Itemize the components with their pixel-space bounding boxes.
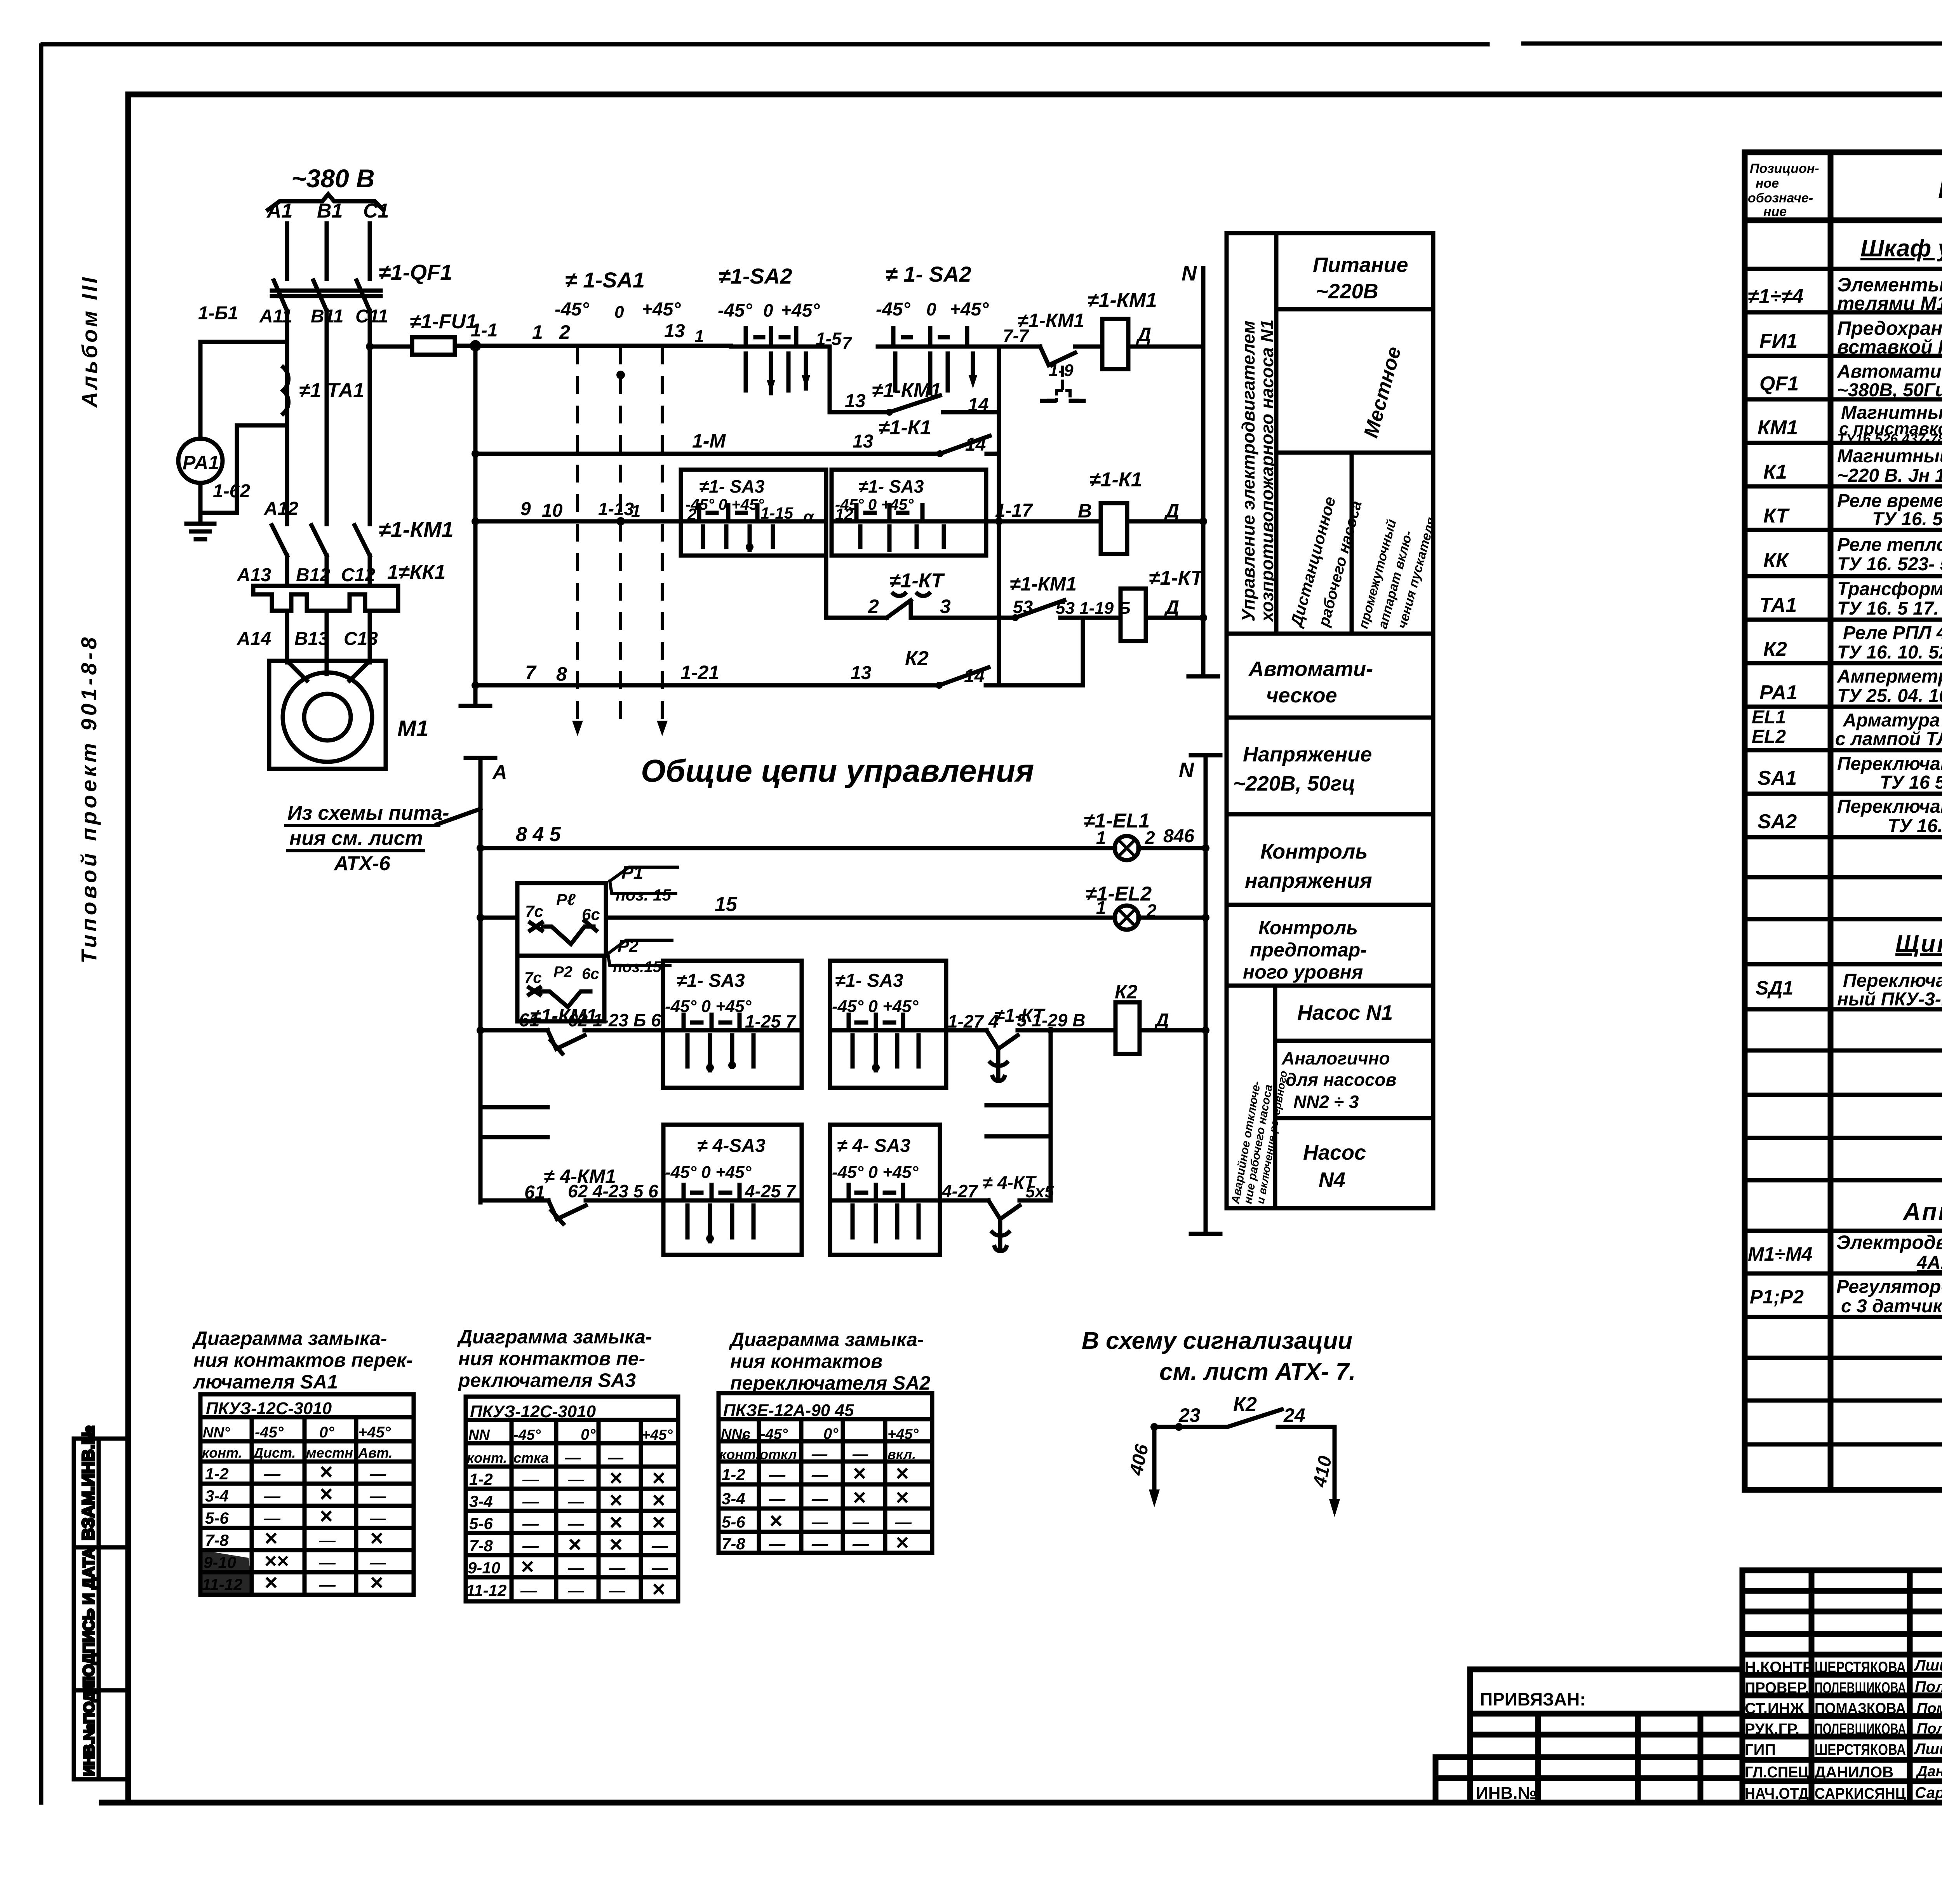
svg-text:—: — [522,1470,539,1488]
svg-text:1-25 7: 1-25 7 [745,1011,797,1031]
contactor KM1 aux contact row4 [1015,600,1064,618]
svg-text:Д: Д [1164,500,1179,522]
svg-text:≠1 ТА1: ≠1 ТА1 [299,379,364,402]
node row5 [472,681,479,689]
lamp EL1 [1115,836,1139,860]
vertical link 2572 [997,412,1001,685]
svg-text:N: N [1179,758,1194,782]
svg-text:QF1: QF1 [1759,373,1799,395]
svg-text:с 3 датчиками ЭРСУ-3: с 3 датчиками ЭРСУ-3 [1841,1296,1942,1317]
svg-text:1: 1 [631,502,640,521]
svg-text:5х5: 5х5 [1025,1182,1054,1201]
contactor KM1 coil [1102,319,1128,369]
svg-text:Амперметр Э-377 50 А. Кл. 1.5: Амперметр Э-377 50 А. Кл. 1.5 50ГЦ [1837,666,1942,687]
svg-text:1-62: 1-62 [213,481,250,502]
svg-text:А12: А12 [264,498,298,519]
wire TA1 bottom loop [237,425,283,496]
signal wire left drop [1152,1427,1157,1494]
svg-text:Переключатель универсаль-: Переключатель универсаль- [1843,970,1942,991]
svg-text:—: — [522,1492,539,1510]
svg-text:Питание: Питание [1313,253,1408,277]
svg-text:РА1: РА1 [183,452,219,474]
svg-text:—: — [319,1531,336,1549]
svg-text:24: 24 [1283,1404,1305,1426]
svg-text:0: 0 [614,303,624,322]
function column inner vertical [1274,233,1279,634]
switch 4-SA3 box1 [663,1125,802,1255]
wire bus to KM1 aux NC [999,345,1040,349]
svg-text:Аппаратура по месту: Аппаратура по месту [1902,1198,1942,1225]
svg-text:А13: А13 [237,565,271,585]
vertical box1 to row4 [824,556,828,618]
svg-text:SА2: SА2 [1758,810,1797,833]
switch SA1 dashed line 1 [576,347,579,719]
svg-text:×: × [264,1526,277,1551]
svg-text:+45°: +45° [781,300,820,321]
svg-text:см. лист АТХ- 7.: см. лист АТХ- 7. [1159,1359,1356,1385]
lamp EL2 [1115,906,1139,930]
svg-text:×: × [520,1554,534,1579]
wire coil to N bus [1128,345,1203,349]
svg-text:Позицион-: Позицион- [1750,161,1819,176]
svg-text:-45°: -45° [513,1427,541,1443]
wire fuse to node 1-1 [455,344,536,348]
svg-text:Регулятор- сигнализатор уровн: Регулятор- сигнализатор уровня [1836,1277,1942,1297]
svg-text:А1: А1 [266,200,292,222]
svg-text:—: — [811,1535,828,1553]
wire to K2 coil [1051,1028,1115,1033]
wire row5 right [986,618,1083,685]
svg-text:—: — [567,1581,585,1599]
svg-text:4-25 7: 4-25 7 [745,1181,797,1201]
svg-text:1-21: 1-21 [680,662,719,683]
svg-text:≠1- SА3: ≠1- SА3 [699,476,765,496]
svg-text:Лшшб: Лшшб [1914,1657,1942,1674]
switch SA3 box2 (top) [832,470,986,556]
svg-text:Переключатель ПКУЗ-12С-3010: Переключатель ПКУЗ-12С-3010 [1837,754,1942,774]
cell Напряжение ~220В 50гц [1227,716,1433,720]
svg-text:—: — [852,1513,869,1531]
svg-text:М1: М1 [397,716,429,741]
wire phase B [325,223,329,279]
svg-text:ТУ 16 526. 047 -74: ТУ 16 526. 047 -74 [1880,772,1942,793]
svg-text:поз.15: поз.15 [613,958,662,976]
svg-text:—: — [369,1553,386,1571]
svg-text:4А160S2: 4А160S2 [1916,1252,1942,1273]
switch SA1 dashed line 2 [619,347,622,723]
time relay 4-KT bell contact [988,1200,1051,1231]
svg-text:Пол: Пол [1915,1678,1942,1695]
svg-text:хозпротивопожарного насоса N1: хозпротивопожарного насоса N1 [1257,319,1277,623]
svg-text:КТ: КТ [1763,505,1790,527]
svg-text:—: — [769,1465,786,1484]
привязан table left extension [1436,1757,1470,1803]
svg-text:Из схемы пита-: Из схемы пита- [287,802,449,824]
mechanical interlock symbol [1049,367,1078,400]
svg-text:×: × [895,1485,908,1510]
svg-text:×: × [853,1485,866,1510]
circuit breaker QF1 [274,280,370,311]
switch SA3 box2 (pump1) [830,961,946,1088]
svg-text:Р2: Р2 [618,937,639,956]
svg-text:Щит оператора: Щит оператора [1895,930,1942,957]
switch SA2 group2 contacts [878,328,999,347]
svg-text:лючателя SА1: лючателя SА1 [193,1371,338,1393]
leader line to A bus [437,809,480,824]
svg-text:2: 2 [559,321,570,343]
svg-text:-45°: -45° [555,299,589,320]
svg-text:К2: К2 [1115,981,1138,1003]
svg-text:-45°: -45° [718,300,752,321]
svg-text:Общие цепи управления: Общие цепи управления [641,753,1034,789]
svg-text:—: — [651,1559,668,1577]
svg-text:846: 846 [1163,826,1194,847]
wire box2 to K1 coil [986,519,1101,524]
svg-text:Электродвигатель ~380В N=15кВ: Электродвигатель ~380В N=15кВт [1836,1232,1942,1253]
svg-text:САРКИСЯНЦ: САРКИСЯНЦ [1815,1785,1906,1802]
cell Аналогично для насосов [1275,1039,1433,1043]
svg-text:напряжения: напряжения [1245,869,1372,892]
current transformer TA1 [283,367,289,414]
svg-text:1: 1 [1096,897,1106,918]
svg-text:ПОЛЕВЩИКОВА: ПОЛЕВЩИКОВА [1815,1679,1906,1697]
thermal relay KK1 [253,586,398,611]
svg-text:—: — [369,1465,386,1483]
table outer frame [1745,152,1942,1490]
svg-text:В13: В13 [294,629,329,649]
svg-text:12: 12 [835,505,853,523]
svg-text:предпотар-: предпотар- [1250,939,1367,961]
svg-text:×: × [853,1461,866,1486]
sensor P2 box [517,956,604,1021]
svg-text:7-8: 7-8 [469,1536,493,1555]
wire TA1 to ammeter top [200,342,283,439]
svg-text:≠ 1- SA2: ≠ 1- SA2 [886,262,971,286]
svg-text:—: — [319,1575,336,1594]
svg-text:—: — [811,1465,828,1484]
row EL2 wire [480,916,1206,920]
svg-text:Наименование: Наименование [1938,176,1942,204]
switch SA3 box1 (pump1) [663,961,802,1088]
svg-text:0: 0 [926,299,936,319]
svg-text:ПКУЗ-12С-3010: ПКУЗ-12С-3010 [206,1399,332,1418]
svg-text:обозначе-: обозначе- [1748,191,1813,206]
vertical link KT bell to pump4 row [1049,1030,1053,1200]
svg-text:≠1-КМ1: ≠1-КМ1 [379,517,454,542]
row wire pump4 [480,1198,548,1203]
svg-text:Р1: Р1 [621,862,643,883]
svg-text:1-15: 1-15 [760,504,794,522]
svg-text:14: 14 [964,666,985,686]
svg-text:ПОЛЕВЩИКОВА: ПОЛЕВЩИКОВА [1815,1721,1906,1738]
svg-text:М1÷М4: М1÷М4 [1748,1243,1812,1265]
svg-text:—: — [319,1553,336,1571]
svg-text:ГЛ.СПЕЦ: ГЛ.СПЕЦ [1745,1764,1809,1781]
wire KT coil to N [1146,616,1203,620]
svg-text:4-27: 4-27 [941,1181,978,1201]
svg-text:0: 0 [763,300,773,321]
wire phase B mid [325,311,329,524]
svg-text:НАЧ.ОТД: НАЧ.ОТД [1745,1785,1809,1802]
svg-text:ШЕРСТЯКОВА: ШЕРСТЯКОВА [1815,1659,1906,1676]
svg-text:—: — [769,1535,786,1553]
svg-text:×: × [264,1570,277,1595]
svg-text:3-4: 3-4 [205,1487,229,1505]
wire K2 coil to N [1140,1028,1206,1033]
svg-text:×: × [895,1530,908,1555]
wire phases to thermal relay [287,556,370,586]
svg-text:0°: 0° [581,1426,596,1443]
svg-text:+45°: +45° [887,1426,919,1442]
wire phase C mid [368,311,372,524]
svg-text:телями М1 (М2÷ М4): телями М1 (М2÷ М4) [1837,293,1942,314]
svg-text:Управление электродвигателем: Управление электродвигателем [1238,321,1258,622]
svg-text:1-17: 1-17 [995,500,1033,521]
svg-text:Реле тепловое РТЛ 20 550 4: Реле тепловое РТЛ 20 550 4 [1837,535,1942,555]
svg-text:9-10: 9-10 [468,1559,500,1577]
svg-text:откл: откл [760,1446,797,1462]
bypass step down [830,347,889,412]
svg-text:переключателя SА2: переключателя SА2 [730,1372,931,1394]
svg-text:1-Б1: 1-Б1 [198,303,238,324]
svg-text:-45° 0 +45°: -45° 0 +45° [665,1163,752,1182]
svg-text:Дист.: Дист. [252,1445,296,1461]
row wire from A [480,1028,548,1033]
svg-text:—: — [895,1513,912,1531]
svg-text:ДАНИЛОВ: ДАНИЛОВ [1815,1764,1893,1781]
svg-text:23: 23 [1178,1404,1201,1426]
supply bracket [268,194,383,210]
svg-text:5-6: 5-6 [205,1509,229,1527]
svg-text:ТУ 25. 04. 10 58- 76: ТУ 25. 04. 10 58- 76 [1837,686,1942,706]
wire phase C [368,223,372,279]
svg-text:с лампой ТЛ ~220В ТУ16.535.681: с лампой ТЛ ~220В ТУ16.535.681-76 [1835,729,1942,749]
svg-text:+45°: +45° [642,1427,673,1443]
svg-text:—: — [264,1465,281,1483]
svg-text:5-6: 5-6 [469,1514,493,1533]
SA3 diagram table [466,1397,678,1601]
svg-text:РУК.ГР.: РУК.ГР. [1745,1721,1799,1738]
switch SA2 group1 fingers [746,354,806,393]
svg-text:—: — [567,1559,585,1577]
svg-text:—: — [264,1509,281,1527]
svg-text:SА1: SА1 [1758,767,1797,789]
svg-text:—: — [369,1509,386,1527]
cell Насос N4 [1275,1116,1433,1120]
svg-text:7: 7 [842,334,853,353]
signal wire [1154,1409,1335,1427]
svg-text:1-13: 1-13 [598,499,634,519]
svg-text:Магнитный пускатель ПМЛ 1100: Магнитный пускатель ПМЛ 11000 4 [1837,446,1942,467]
svg-text:×: × [609,1532,622,1557]
flag P1 поз.15 [610,867,678,894]
svg-text:5-6: 5-6 [722,1513,745,1531]
svg-text:—: — [609,1559,626,1577]
svg-text:≠1-КТ: ≠1-КТ [1149,567,1204,589]
svg-text:РА1: РА1 [1759,681,1798,704]
svg-text:К2: К2 [1233,1393,1257,1416]
svg-text:1-2: 1-2 [205,1465,229,1483]
svg-text:Альбом III: Альбом III [77,275,102,408]
svg-text:ТУ 16. 523- 549-78: ТУ 16. 523- 549-78 [1837,554,1942,575]
svg-text:13: 13 [853,431,874,452]
svg-text:×: × [652,1465,665,1491]
svg-text:≠ 4- SА3: ≠ 4- SА3 [837,1136,910,1156]
svg-text:≠ 4-SА3: ≠ 4-SА3 [697,1136,766,1156]
svg-text:×: × [319,1481,332,1507]
svg-text:Автоматический выключатель АЕ: Автоматический выключатель АЕ 20ж-КМ3 [1837,361,1942,382]
switch 4-SA3 box2 [830,1125,940,1255]
svg-text:Автомати-: Автомати- [1248,657,1373,681]
svg-text:≠1- SА3: ≠1- SА3 [835,970,903,991]
svg-text:—: — [567,1514,585,1533]
svg-text:Д: Д [1136,324,1151,345]
svg-text:7: 7 [525,662,537,683]
svg-text:~220В, 50гц: ~220В, 50гц [1233,772,1355,795]
svg-text:ПКЗЕ-12А-90 45: ПКЗЕ-12А-90 45 [723,1401,854,1420]
svg-text:ния контактов перек-: ния контактов перек- [193,1349,413,1371]
signal wire right drop [1333,1427,1337,1503]
svg-text:Арматура сигнальной лампы А: Арматура сигнальной лампы АСЛ-М42 [1843,710,1942,731]
motor M1 rotor [304,694,351,740]
svg-text:7с: 7с [525,902,543,920]
contactor KM1 aux NC contact [1040,347,1102,365]
node 1-1 [472,342,479,349]
svg-text:NN2 ÷ 3: NN2 ÷ 3 [1293,1092,1359,1112]
switch SA3 group2 contacts [832,505,986,521]
svg-text:ное: ное [1756,176,1779,191]
svg-text:—: — [852,1446,868,1463]
svg-text:2: 2 [1146,901,1157,921]
svg-text:+45°: +45° [642,299,681,320]
svg-text:С13: С13 [344,629,378,649]
svg-text:11-12: 11-12 [466,1581,506,1599]
svg-text:ВЗАМ.ИНВ.№: ВЗАМ.ИНВ.№ [79,1425,98,1540]
margin stamp table [74,1439,128,1779]
svg-text:поз. 15: поз. 15 [616,886,671,904]
svg-text:-45°: -45° [255,1424,284,1441]
svg-text:Насос: Насос [1303,1141,1366,1164]
svg-text:≠1-К1: ≠1-К1 [1089,469,1142,491]
relay K2 coil [1115,1002,1140,1054]
node on dash2 [616,371,625,379]
svg-text:-45°: -45° [760,1426,788,1442]
svg-text:—: — [609,1581,626,1599]
break stubs right [987,1105,1051,1136]
svg-text:К2: К2 [1763,638,1787,660]
switch 4-SA3 group2 contacts [830,1185,940,1200]
vertical from node 1-1 [461,346,490,706]
svg-text:местн: местн [306,1445,353,1461]
svg-text:≠1-EL2: ≠1-EL2 [1086,883,1152,905]
svg-text:62 1-23 Б 6: 62 1-23 Б 6 [568,1010,661,1030]
svg-text:1≠КК1: 1≠КК1 [387,561,445,584]
svg-text:×: × [769,1508,782,1533]
row EL1 wire [480,846,1206,850]
svg-text:≠1- SА3: ≠1- SА3 [677,970,745,991]
svg-text:3-4: 3-4 [722,1489,745,1508]
SA2 diagram table [719,1393,932,1553]
svg-text:≠1-К1: ≠1-К1 [879,416,931,439]
svg-text:6с: 6с [582,965,599,982]
svg-text:NN: NN [468,1427,490,1443]
svg-text:N: N [1182,262,1197,285]
svg-text:SД1: SД1 [1756,977,1793,999]
switch SA3 group1 contacts [681,505,826,521]
svg-text:ИНВ.№: ИНВ.№ [1476,1784,1537,1803]
switch 4-SA3 group1 contacts [663,1185,802,1200]
SA1 diagram table [200,1394,414,1595]
svg-text:Контроль: Контроль [1258,917,1358,939]
svg-text:Д: Д [1164,596,1179,618]
cell Местное (rotated) [1276,451,1433,455]
svg-text:13: 13 [851,663,872,683]
svg-text:9: 9 [520,499,531,519]
svg-text:ТУ16.526.437-78: ТУ16.526.437-78 [1837,431,1942,447]
svg-text:1-2: 1-2 [469,1470,493,1488]
svg-text:ческое: ческое [1266,684,1337,707]
svg-text:ТУ 16. 10. 523. 554-78: ТУ 16. 10. 523. 554-78 [1837,642,1942,663]
svg-text:КМ1: КМ1 [1758,416,1798,439]
svg-text:Переключатель ПКУЗ-12 А- 20 45: Переключатель ПКУЗ-12 А- 20 45 [1837,796,1942,817]
bus N vertical (common circuits) [1191,755,1220,1234]
svg-text:Напряжение: Напряжение [1243,743,1372,766]
svg-text:×: × [370,1526,383,1551]
wire K1 coil to N [1127,519,1203,524]
svg-text:N4: N4 [1319,1168,1345,1192]
svg-text:8 4 5: 8 4 5 [516,823,561,846]
svg-text:≠1-КТ: ≠1-КТ [889,570,945,592]
wire phases to motor [287,611,370,662]
svg-text:1: 1 [694,327,704,346]
svg-text:ИНВ.№ПОДЛ: ИНВ.№ПОДЛ [81,1681,97,1776]
svg-text:-45° 0 +45°: -45° 0 +45° [832,1163,919,1182]
svg-text:Сар: Сар [1915,1784,1942,1801]
svg-text:конт.: конт. [719,1446,760,1462]
svg-text:×: × [652,1510,665,1535]
svg-text:13: 13 [664,321,685,341]
svg-text:≠1- SА3: ≠1- SА3 [858,476,924,496]
svg-text:×: × [319,1459,332,1484]
svg-text:Дан: Дан [1916,1763,1942,1780]
svg-text:~380 В: ~380 В [291,164,375,193]
svg-text:62 4-23 5 6: 62 4-23 5 6 [568,1181,658,1201]
svg-text:А: А [492,761,507,784]
svg-text:~380В, 50Гц I расц. 40А Iотс 1: ~380В, 50Гц I расц. 40А Iотс 12 I расц. [1837,380,1942,401]
flag P2 поз.15 [608,940,672,965]
svg-text:8: 8 [556,663,567,685]
svg-text:ТУ 16. 5 17. 442 - 75: ТУ 16. 5 17. 442 - 75 [1837,598,1942,619]
svg-text:Рℓ: Рℓ [556,890,576,909]
svg-text:××: ×× [264,1549,289,1573]
svg-text:≠1-КМ1: ≠1-КМ1 [1010,573,1077,595]
node dash row3 [616,517,625,526]
svg-text:А14: А14 [237,629,271,649]
svg-text:ния контактов пе-: ния контактов пе- [458,1348,645,1369]
wire to KT coil [1060,616,1121,620]
svg-text:×: × [609,1510,622,1535]
row4 wire left [826,616,887,620]
svg-text:2: 2 [1145,827,1155,848]
svg-text:—: — [565,1449,581,1466]
node row3 [472,517,479,525]
svg-text:ния см. лист: ния см. лист [289,827,423,850]
svg-text:вкл.: вкл. [887,1446,916,1462]
SA1 dashed line arrows [572,721,668,736]
svg-text:+45°: +45° [950,299,989,320]
sheet outer border left [39,45,44,1803]
svg-text:В схему сигнализации: В схему сигнализации [1082,1327,1352,1354]
